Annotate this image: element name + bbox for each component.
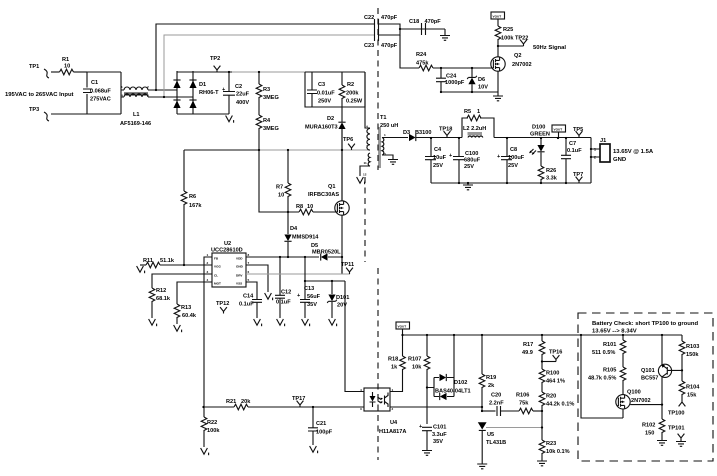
LED D100 <box>530 125 550 155</box>
svg-text:2: 2 <box>207 261 209 265</box>
svg-text:49.9: 49.9 <box>522 350 533 356</box>
svg-text:CL: CL <box>214 274 218 278</box>
svg-text:C12: C12 <box>281 290 291 296</box>
svg-text:R17: R17 <box>523 342 533 348</box>
capacitor C22 <box>364 15 398 30</box>
test point TP22 <box>498 36 528 47</box>
svg-text:150: 150 <box>645 431 654 437</box>
svg-text:4: 4 <box>207 278 209 282</box>
zener D101 <box>327 281 349 318</box>
svg-text:68.1k: 68.1k <box>156 296 171 302</box>
svg-text:10k 0.1%: 10k 0.1% <box>546 449 570 455</box>
wire VOUT feedback rail <box>403 334 683 336</box>
svg-text:464 1%: 464 1% <box>546 379 565 385</box>
resistor R23 <box>539 440 569 460</box>
svg-text:25V: 25V <box>508 163 518 169</box>
resistor R11 <box>140 258 212 268</box>
svg-text:100k: 100k <box>501 36 514 42</box>
svg-text:BC557: BC557 <box>641 376 658 382</box>
ground V1 <box>329 319 337 326</box>
svg-text:0.068uF: 0.068uF <box>90 89 111 95</box>
battery check box <box>578 313 713 461</box>
svg-text:RH06-T: RH06-T <box>199 90 219 96</box>
svg-text:R3: R3 <box>263 87 270 93</box>
wire <box>51 71 60 73</box>
svg-text:VGG: VGG <box>214 265 221 269</box>
resistor R1 <box>60 57 88 75</box>
ground V1 <box>137 266 145 273</box>
test point TP5 <box>573 127 583 138</box>
transistor Q101 <box>641 335 682 419</box>
svg-text:2.2nF: 2.2nF <box>489 401 504 407</box>
svg-text:R18: R18 <box>388 357 398 363</box>
svg-text:1k: 1k <box>391 365 398 371</box>
svg-text:D102: D102 <box>454 380 467 386</box>
svg-text:0.1uF: 0.1uF <box>567 148 582 154</box>
wire opto cathode row <box>390 406 482 408</box>
svg-text:BAS40-04LT1: BAS40-04LT1 <box>435 389 471 395</box>
svg-text:7: 7 <box>248 261 250 265</box>
resistor R8 <box>296 204 336 215</box>
svg-text:T1: T1 <box>380 115 387 121</box>
svg-text:3MEG: 3MEG <box>263 95 279 101</box>
svg-text:VOUT: VOUT <box>398 325 407 329</box>
svg-text:R22: R22 <box>207 420 217 426</box>
wire <box>152 89 177 91</box>
svg-text:10: 10 <box>307 204 313 210</box>
svg-text:10: 10 <box>278 193 284 199</box>
svg-text:C23: C23 <box>364 43 374 49</box>
resistor R7 <box>276 150 291 212</box>
ground <box>422 449 432 455</box>
svg-text:R101: R101 <box>603 342 616 348</box>
svg-text:D3: D3 <box>403 130 410 136</box>
svg-text:R25: R25 <box>503 27 513 33</box>
svg-text:R19: R19 <box>486 375 496 381</box>
test point TP11 <box>341 262 354 274</box>
ground secondary <box>388 158 398 164</box>
resistor R102 <box>642 419 665 440</box>
svg-text:TP1: TP1 <box>29 64 39 70</box>
svg-text:MOT: MOT <box>214 282 221 286</box>
svg-text:3.3uF: 3.3uF <box>432 432 447 438</box>
resistor R6 <box>181 150 202 265</box>
svg-text:511 0.5%: 511 0.5% <box>592 350 615 356</box>
resistor R19 <box>479 335 496 411</box>
svg-text:20V: 20V <box>337 303 347 309</box>
diode D2 <box>305 107 346 201</box>
zener D6 <box>467 68 488 92</box>
svg-text:U5: U5 <box>487 432 494 438</box>
resistor R105 <box>588 367 626 395</box>
test point TP3 <box>29 107 49 121</box>
wire <box>164 35 374 97</box>
svg-text:VOUT: VOUT <box>493 15 502 19</box>
svg-text:IRFBC30AS: IRFBC30AS <box>308 192 339 198</box>
resistor R4 <box>256 115 279 150</box>
transistor Q1 <box>308 184 349 215</box>
resistor R106 <box>516 393 542 414</box>
IC U2 UCC28610 <box>207 241 250 287</box>
svg-text:L2 2.2uH: L2 2.2uH <box>463 126 486 132</box>
svg-text:VDD: VDD <box>236 257 243 261</box>
isolation boundary <box>377 8 379 170</box>
svg-text:100uF: 100uF <box>508 155 525 161</box>
optocoupler U4 <box>360 388 406 435</box>
wire VDD bus <box>246 256 319 258</box>
svg-text:TP12: TP12 <box>216 301 229 307</box>
svg-text:2: 2 <box>392 407 394 411</box>
wire <box>51 113 87 115</box>
svg-text:2N7002: 2N7002 <box>512 62 532 68</box>
wire FB vertical <box>204 257 212 407</box>
svg-text:150k: 150k <box>686 352 699 358</box>
wire TL431 ref <box>486 427 542 429</box>
svg-text:R11: R11 <box>143 258 153 264</box>
svg-text:R26: R26 <box>546 168 556 174</box>
capacitor C14 <box>239 282 262 318</box>
svg-text:44.2k 0.1%: 44.2k 0.1% <box>546 402 574 408</box>
svg-text:C21: C21 <box>316 421 326 427</box>
ground <box>537 460 547 466</box>
wire battery branch <box>581 335 623 418</box>
svg-text:TP16: TP16 <box>549 350 562 356</box>
inductor L2 with resistor R5 <box>462 109 494 138</box>
svg-text:0.25W: 0.25W <box>346 99 363 105</box>
capacitor C8 <box>497 138 525 184</box>
test point TP18 <box>439 127 452 138</box>
ground V1 aux <box>357 177 365 184</box>
svg-text:R102: R102 <box>642 423 655 429</box>
transistor Q2 <box>491 46 532 92</box>
svg-text:R7: R7 <box>276 185 283 191</box>
resistor R2 <box>339 72 363 107</box>
svg-text:2N7002: 2N7002 <box>631 398 651 404</box>
svg-text:13.65V @ 1.5A: 13.65V @ 1.5A <box>613 149 654 155</box>
ground <box>440 29 450 40</box>
svg-text:R105: R105 <box>603 368 616 374</box>
svg-text:R1: R1 <box>62 57 69 63</box>
svg-text:Q1: Q1 <box>328 184 335 190</box>
svg-text:C2: C2 <box>235 84 242 90</box>
svg-text:1: 1 <box>477 109 480 115</box>
ground <box>493 92 503 101</box>
svg-text:4: 4 <box>366 125 368 129</box>
capacitor C7 <box>561 138 582 184</box>
ground V1 <box>201 448 209 455</box>
svg-text:R100: R100 <box>546 371 559 377</box>
test point TP101 <box>668 426 686 447</box>
svg-text:1: 1 <box>594 148 596 152</box>
svg-text:TP100: TP100 <box>668 411 684 417</box>
svg-text:C13: C13 <box>304 286 314 292</box>
svg-text:475k: 475k <box>416 60 429 66</box>
svg-text:C20: C20 <box>491 393 501 399</box>
svg-text:10V: 10V <box>478 85 488 91</box>
svg-text:4: 4 <box>360 388 362 392</box>
svg-text:3MEG: 3MEG <box>263 126 279 132</box>
wire <box>152 96 193 98</box>
svg-text:AF5169-146: AF5169-146 <box>120 121 151 127</box>
svg-text:10: 10 <box>64 64 70 70</box>
test point TP17 <box>292 396 305 407</box>
resistor R24 <box>400 35 492 71</box>
resistor R21 <box>226 399 364 410</box>
svg-text:R106: R106 <box>516 393 529 399</box>
svg-text:50Hz Signal: 50Hz Signal <box>533 45 566 51</box>
svg-text:3: 3 <box>207 270 209 274</box>
svg-text:Q2: Q2 <box>514 53 521 59</box>
svg-text:195VAC to 265VAC Input: 195VAC to 265VAC Input <box>5 92 74 98</box>
svg-text:TP11: TP11 <box>341 262 354 268</box>
svg-text:25V: 25V <box>433 163 443 169</box>
svg-text:L1: L1 <box>133 112 140 118</box>
svg-text:J1: J1 <box>600 138 606 144</box>
svg-text:VSS: VSS <box>236 282 242 286</box>
svg-text:2k: 2k <box>488 383 495 389</box>
capacitor C3 <box>307 72 335 107</box>
transformer T1 <box>360 72 398 177</box>
resistor R13 <box>174 282 212 324</box>
ground V1 <box>149 319 157 326</box>
svg-text:D1: D1 <box>199 82 206 88</box>
svg-text:0.1uF: 0.1uF <box>239 302 254 308</box>
svg-text:R24: R24 <box>416 52 427 58</box>
svg-text:D2: D2 <box>327 116 334 122</box>
svg-text:Q101: Q101 <box>641 368 655 374</box>
svg-text:6: 6 <box>248 270 250 274</box>
wire pin7 to ground <box>246 265 268 292</box>
svg-text:C1: C1 <box>91 80 98 86</box>
ground V1 <box>226 116 234 123</box>
svg-text:R2: R2 <box>347 82 354 88</box>
svg-text:22uF: 22uF <box>236 92 250 98</box>
resistor R17 <box>522 335 545 369</box>
ground secondary rail <box>463 183 473 190</box>
wire drain net W1 <box>184 149 259 151</box>
transistor Q100 <box>616 390 662 419</box>
svg-text:1: 1 <box>121 85 123 89</box>
VOUT label primary <box>491 12 505 26</box>
svg-text:10uF: 10uF <box>433 155 447 161</box>
svg-text:60.4k: 60.4k <box>182 313 197 319</box>
wire bulk+ rail <box>177 71 232 73</box>
svg-text:R12: R12 <box>156 288 166 294</box>
capacitor C2 <box>193 72 250 114</box>
svg-text:Battery Check: short TP100 to: Battery Check: short TP100 to ground <box>592 321 698 327</box>
svg-text:U2: U2 <box>224 241 231 247</box>
svg-text:R103: R103 <box>686 344 699 350</box>
svg-text:TP2: TP2 <box>210 56 220 62</box>
svg-text:5: 5 <box>248 278 250 282</box>
wire <box>379 24 446 35</box>
svg-text:250V: 250V <box>318 99 331 105</box>
wire to optocoupler collector <box>345 281 364 392</box>
svg-text:C4: C4 <box>434 147 442 153</box>
svg-text:R21: R21 <box>226 399 236 405</box>
diode D3 <box>389 130 462 141</box>
capacitor C101 <box>419 424 447 449</box>
svg-text:R5: R5 <box>464 109 471 115</box>
svg-text:13.65V --> 8.34V: 13.65V --> 8.34V <box>592 329 637 335</box>
ground V1 <box>174 325 182 332</box>
capacitor C13 <box>297 257 321 318</box>
svg-text:200k: 200k <box>346 91 359 97</box>
svg-text:C22: C22 <box>364 15 374 21</box>
svg-text:UCC28610D: UCC28610D <box>211 248 243 254</box>
resistor R104 <box>679 381 700 400</box>
capacitor C18 <box>409 19 441 35</box>
wire source <box>341 215 343 274</box>
svg-text:3: 3 <box>360 407 362 411</box>
ground V1 <box>265 293 273 300</box>
svg-text:C18: C18 <box>409 19 419 25</box>
wire <box>441 91 498 93</box>
test point TP16 <box>542 350 562 362</box>
svg-text:DRV: DRV <box>236 274 243 278</box>
test point TP2 <box>210 56 220 72</box>
diode D4 <box>284 212 319 257</box>
capacitor C20 <box>489 393 519 417</box>
svg-text:470pF: 470pF <box>381 15 398 21</box>
svg-text:100pF: 100pF <box>316 430 333 436</box>
svg-text:2: 2 <box>147 85 149 89</box>
svg-text:B3100: B3100 <box>415 130 431 136</box>
VOUT label secondary <box>552 125 566 138</box>
svg-text:GREEN: GREEN <box>530 132 550 138</box>
test point TP12 <box>216 301 229 314</box>
svg-text:GND: GND <box>236 265 244 269</box>
svg-text:100k: 100k <box>207 428 220 434</box>
bridge rectifier D1 <box>173 71 219 114</box>
wire DRV <box>246 273 350 275</box>
svg-text:D5: D5 <box>311 243 318 249</box>
svg-text:U4: U4 <box>390 420 398 426</box>
svg-text:7: 7 <box>366 145 368 149</box>
ground V1 <box>302 319 310 326</box>
svg-text:TP101: TP101 <box>668 426 684 432</box>
shunt regulator U5 TL431B <box>478 422 506 463</box>
svg-text:C14: C14 <box>243 294 254 300</box>
svg-text:470pF: 470pF <box>425 19 442 25</box>
wire secondary rail <box>494 137 591 139</box>
snubber box with C3 and R2 <box>305 72 365 107</box>
resistor R22 <box>201 407 220 447</box>
test point TP100 <box>668 400 685 417</box>
wire gate W2 <box>259 150 299 212</box>
svg-text:35V: 35V <box>433 439 443 445</box>
capacitor C12 <box>275 257 291 318</box>
test point TP6 <box>343 137 355 150</box>
svg-text:167k: 167k <box>189 203 202 209</box>
resistor R25 <box>495 26 514 46</box>
capacitor C100 <box>449 138 481 184</box>
resistor R3 <box>256 72 279 115</box>
ground V1 <box>277 319 285 326</box>
svg-text:MBR0520L: MBR0520L <box>312 250 341 256</box>
svg-text:MURA160T3: MURA160T3 <box>305 125 338 131</box>
svg-text:3: 3 <box>147 94 149 98</box>
resistor R18 <box>388 335 405 392</box>
ground V1 <box>254 319 262 326</box>
svg-text:15k: 15k <box>687 393 697 399</box>
svg-text:20k: 20k <box>241 399 251 405</box>
svg-text:1000pF: 1000pF <box>445 80 465 86</box>
svg-text:GND: GND <box>613 157 626 163</box>
svg-text:R6: R6 <box>189 194 196 200</box>
svg-text:4: 4 <box>121 94 123 98</box>
wire <box>156 24 374 90</box>
svg-text:35V: 35V <box>307 302 317 308</box>
resistor R100 <box>539 369 565 392</box>
svg-text:C7: C7 <box>569 141 576 147</box>
ground <box>477 463 487 469</box>
svg-text:680uF: 680uF <box>464 158 481 164</box>
svg-text:H11A817A: H11A817A <box>379 429 406 435</box>
svg-text:8: 8 <box>248 253 250 257</box>
wire aux bus <box>305 280 345 282</box>
svg-text:470pF: 470pF <box>381 43 398 49</box>
resistor R103 <box>679 335 699 381</box>
svg-text:2: 2 <box>594 156 596 160</box>
svg-text:0.01uF: 0.01uF <box>317 91 335 97</box>
svg-text:D100: D100 <box>532 125 545 131</box>
resistor R12 <box>149 274 212 318</box>
svg-text:TP3: TP3 <box>29 107 39 113</box>
svg-text:D6: D6 <box>478 77 485 83</box>
wire compensation <box>482 410 496 412</box>
svg-text:R23: R23 <box>546 441 556 447</box>
test point TP1 <box>29 64 49 78</box>
svg-text:C24: C24 <box>446 74 457 80</box>
capacitor C23 <box>364 30 398 49</box>
capacitor C1 <box>83 72 121 114</box>
svg-text:250 uH: 250 uH <box>380 123 398 129</box>
svg-text:275VAC: 275VAC <box>90 97 111 103</box>
svg-text:51.1k: 51.1k <box>160 258 175 264</box>
svg-text:TP6: TP6 <box>343 137 353 143</box>
svg-text:48.7k 0.5%: 48.7k 0.5% <box>588 376 616 382</box>
svg-text:1: 1 <box>384 133 386 137</box>
svg-text:10k: 10k <box>412 365 422 371</box>
ground V1 <box>310 446 318 453</box>
svg-text:R8: R8 <box>296 204 303 210</box>
svg-text:R104: R104 <box>686 385 700 391</box>
resistor R101 <box>592 335 626 367</box>
svg-text:D101: D101 <box>336 295 349 301</box>
svg-text:1: 1 <box>207 253 209 257</box>
svg-text:400V: 400V <box>236 100 249 106</box>
svg-text:C8: C8 <box>510 147 517 153</box>
svg-text:C100: C100 <box>465 151 478 157</box>
wire secondary bottom rail <box>431 182 591 184</box>
resistor R26 <box>538 153 558 184</box>
svg-text:R107: R107 <box>408 357 421 363</box>
svg-text:75k: 75k <box>519 401 529 407</box>
svg-text:C3: C3 <box>318 82 325 88</box>
svg-text:Q100: Q100 <box>627 390 641 396</box>
VOUT label feedback <box>396 322 410 335</box>
svg-text:R13: R13 <box>181 305 191 311</box>
test point TP7 <box>573 172 583 183</box>
svg-text:12: 12 <box>363 173 367 177</box>
svg-text:R4: R4 <box>263 118 271 124</box>
capacitor C24 <box>436 68 465 92</box>
resistor R107 <box>408 335 430 424</box>
svg-text:56uF: 56uF <box>307 294 321 300</box>
svg-text:0.1uF: 0.1uF <box>276 300 291 306</box>
inductor L1 <box>120 85 152 127</box>
